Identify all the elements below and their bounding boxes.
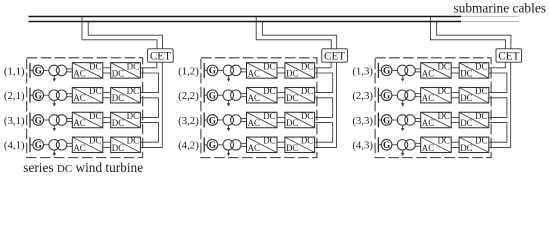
wire blade-to-generator (204, 69, 207, 71)
svg-text:AC: AC (248, 143, 260, 153)
transformer T unit (4,1) (49, 140, 67, 151)
svg-text:DC: DC (460, 68, 472, 78)
transformer T unit (1,1) (49, 65, 67, 76)
svg-text:DC: DC (89, 61, 101, 71)
wire upper submarine cable to CET 3 (430, 17, 505, 49)
DC/DC converter unit (3,1) (111, 111, 141, 128)
svg-text:DC: DC (127, 136, 139, 146)
transformer T unit (4,3) (397, 140, 415, 151)
wire pair transformer-to-rectifier (241, 119, 247, 122)
CET converter (cluster 3) (496, 49, 522, 63)
wire pair transformer-to-rectifier (241, 69, 247, 72)
svg-text:CET: CET (150, 51, 171, 63)
svg-text:DC: DC (112, 143, 124, 153)
series link wire unit 2-to-3 (string 1) (140, 98, 158, 118)
svg-text:AC: AC (73, 143, 85, 153)
upper submarine cable bus (29, 16, 519, 18)
svg-text:DC: DC (301, 61, 313, 71)
generator G unit (1,3) (381, 65, 392, 77)
wire pair transformer-to-rectifier (241, 94, 247, 97)
wire blade-to-generator (30, 144, 33, 146)
svg-text:G: G (209, 141, 216, 151)
svg-text:DC: DC (301, 111, 313, 121)
svg-text:(3,3): (3,3) (352, 115, 373, 127)
svg-text:DC: DC (286, 143, 298, 153)
wire blade-to-generator (204, 94, 207, 96)
svg-text:DC: DC (89, 136, 101, 146)
svg-text:(3,1): (3,1) (4, 115, 25, 127)
wire CET 3 to string positive terminal (489, 62, 506, 68)
svg-text:AC: AC (422, 118, 434, 128)
svg-text:AC: AC (248, 118, 260, 128)
wire pair rectifier-to-DC/DC (103, 117, 111, 122)
svg-text:G: G (35, 92, 42, 102)
wire lower submarine cable to CET 1 (88, 22, 162, 49)
wire pair rectifier-to-DC/DC (451, 142, 459, 147)
series link wire unit 1-to-2 (string 3) (489, 73, 507, 93)
generator G unit (3,3) (381, 115, 392, 127)
AC/DC converter unit (2,2) (247, 86, 278, 103)
wire upper submarine cable to CET 1 (82, 17, 157, 49)
DC/DC converter unit (2,2) (285, 86, 315, 103)
svg-text:DC: DC (286, 93, 298, 103)
ground at transformer (2,1) (53, 100, 56, 106)
DC/DC converter unit (4,3) (459, 136, 489, 153)
wire pair rectifier-to-DC/DC (103, 142, 111, 147)
transformer T unit (3,2) (223, 115, 241, 126)
svg-text:(4,2): (4,2) (178, 140, 199, 152)
generator G unit (2,2) (207, 90, 218, 102)
wind turbine blade bar unit (2,1) (29, 88, 31, 103)
wire pair rectifier-to-DC/DC (103, 68, 111, 73)
generator G unit (1,1) (33, 65, 44, 77)
wire pair transformer-to-rectifier (67, 143, 73, 146)
generator G unit (2,1) (33, 90, 44, 102)
svg-text:(3,2): (3,2) (178, 115, 199, 127)
svg-text:DC: DC (301, 136, 313, 146)
svg-text:DC: DC (460, 93, 472, 103)
wire pair transformer-to-rectifier (415, 119, 421, 122)
wind turbine blade bar unit (2,3) (377, 88, 379, 103)
wire pair transformer-to-rectifier (415, 69, 421, 72)
svg-text:AC: AC (422, 93, 434, 103)
svg-text:G: G (383, 116, 390, 126)
svg-text:series DC wind turbine: series DC wind turbine (23, 160, 143, 175)
svg-text:G: G (383, 141, 390, 151)
wire blade-to-generator (30, 69, 33, 71)
generator G unit (4,2) (207, 140, 218, 152)
svg-text:AC: AC (73, 93, 85, 103)
wire CET 2 to string negative terminal (315, 62, 337, 147)
svg-text:DC: DC (263, 111, 275, 121)
DC/DC converter unit (1,3) (459, 61, 489, 78)
AC/DC converter unit (4,3) (421, 136, 452, 153)
transformer T unit (2,2) (223, 90, 241, 101)
ground at transformer (4,3) (401, 150, 404, 156)
svg-text:(2,3): (2,3) (352, 90, 373, 102)
wind turbine blade bar unit (3,2) (203, 113, 205, 128)
svg-text:G: G (383, 92, 390, 102)
svg-text:DC: DC (127, 61, 139, 71)
svg-text:AC: AC (248, 68, 260, 78)
generator G unit (3,2) (207, 115, 218, 127)
DC/DC converter unit (3,2) (285, 111, 315, 128)
transformer T unit (3,3) (397, 115, 415, 126)
CET converter (cluster 2) (322, 49, 348, 63)
wire generator-to-transformer (392, 69, 397, 71)
svg-text:DC: DC (460, 118, 472, 128)
wire lower submarine cable to CET 3 (437, 22, 511, 49)
DC/DC converter unit (3,3) (459, 111, 489, 128)
AC/DC converter unit (2,1) (72, 86, 103, 103)
wire blade-to-generator (204, 119, 207, 121)
ground at transformer (2,3) (401, 100, 404, 106)
wind turbine blade bar unit (4,2) (203, 137, 205, 152)
svg-text:DC: DC (437, 86, 449, 96)
DC/DC converter unit (4,1) (111, 136, 141, 153)
wire pair transformer-to-rectifier (241, 143, 247, 146)
ground at transformer (4,2) (227, 150, 230, 156)
wire blade-to-generator (378, 144, 381, 146)
svg-text:DC: DC (437, 111, 449, 121)
ground at transformer (1,3) (401, 75, 404, 81)
svg-text:DC: DC (89, 111, 101, 121)
svg-text:G: G (35, 67, 42, 77)
transformer T unit (1,3) (397, 65, 415, 76)
svg-text:DC: DC (286, 118, 298, 128)
wire pair rectifier-to-DC/DC (277, 142, 285, 147)
ground at transformer (1,2) (227, 75, 230, 81)
DC/DC converter unit (2,1) (111, 86, 141, 103)
wire blade-to-generator (204, 144, 207, 146)
wire pair rectifier-to-DC/DC (277, 117, 285, 122)
wire pair rectifier-to-DC/DC (451, 68, 459, 73)
svg-text:AC: AC (422, 68, 434, 78)
svg-text:DC: DC (89, 86, 101, 96)
svg-text:DC: DC (263, 61, 275, 71)
transformer T unit (2,1) (49, 90, 67, 101)
ground at transformer (3,2) (227, 125, 230, 131)
ground at transformer (1,1) (53, 75, 56, 81)
series link wire unit 1-to-2 (string 2) (315, 73, 333, 93)
wind turbine blade bar unit (3,3) (377, 113, 379, 128)
svg-text:DC: DC (263, 86, 275, 96)
transformer T unit (3,1) (49, 115, 67, 126)
AC/DC converter unit (1,3) (421, 61, 452, 78)
wire generator-to-transformer (44, 144, 49, 146)
svg-text:DC: DC (437, 136, 449, 146)
DC/DC converter unit (2,3) (459, 86, 489, 103)
wire pair rectifier-to-DC/DC (451, 117, 459, 122)
svg-text:AC: AC (73, 118, 85, 128)
dashed enclosure: series DC wind turbine string 2 (201, 58, 317, 158)
AC/DC converter unit (4,1) (72, 136, 103, 153)
wire blade-to-generator (30, 119, 33, 121)
svg-text:DC: DC (112, 118, 124, 128)
svg-text:CET: CET (324, 51, 345, 63)
svg-text:(2,2): (2,2) (178, 90, 199, 102)
AC/DC converter unit (4,2) (247, 136, 278, 153)
wire lower submarine cable to CET 2 (262, 22, 336, 49)
svg-text:(4,3): (4,3) (352, 140, 373, 152)
wire blade-to-generator (378, 69, 381, 71)
wire generator-to-transformer (392, 119, 397, 121)
svg-text:G: G (383, 67, 390, 77)
wire generator-to-transformer (44, 119, 49, 121)
svg-text:DC: DC (286, 68, 298, 78)
svg-text:AC: AC (248, 93, 260, 103)
wire blade-to-generator (378, 94, 381, 96)
AC/DC converter unit (2,3) (421, 86, 452, 103)
transformer T unit (1,2) (223, 65, 241, 76)
wire blade-to-generator (30, 94, 33, 96)
svg-text:CET: CET (498, 51, 519, 63)
wire pair transformer-to-rectifier (67, 119, 73, 122)
generator G unit (4,1) (33, 140, 44, 152)
svg-text:(4,1): (4,1) (4, 140, 25, 152)
svg-text:(1,3): (1,3) (352, 65, 373, 77)
series link wire unit 3-to-4 (string 2) (315, 123, 333, 143)
svg-text:DC: DC (475, 111, 487, 121)
AC/DC converter unit (3,3) (421, 111, 452, 128)
svg-text:DC: DC (301, 86, 313, 96)
wire pair rectifier-to-DC/DC (103, 93, 111, 98)
wire CET 1 to string positive terminal (140, 62, 157, 68)
svg-text:DC: DC (263, 136, 275, 146)
AC/DC converter unit (1,1) (72, 61, 103, 78)
svg-text:DC: DC (127, 111, 139, 121)
wire generator-to-transformer (44, 69, 49, 71)
dashed enclosure: series DC wind turbine string 1 (27, 58, 143, 158)
wire generator-to-transformer (218, 69, 223, 71)
wire CET 3 to string negative terminal (489, 62, 511, 147)
wire pair transformer-to-rectifier (67, 69, 73, 72)
AC/DC converter unit (1,2) (247, 61, 278, 78)
DC/DC converter unit (1,2) (285, 61, 315, 78)
wire pair rectifier-to-DC/DC (451, 93, 459, 98)
wind turbine blade bar unit (3,1) (29, 113, 31, 128)
generator G unit (1,2) (207, 65, 218, 77)
wire pair rectifier-to-DC/DC (277, 93, 285, 98)
generator G unit (2,3) (381, 90, 392, 102)
svg-text:DC: DC (475, 86, 487, 96)
wire pair transformer-to-rectifier (67, 94, 73, 97)
wire generator-to-transformer (218, 94, 223, 96)
svg-text:DC: DC (437, 61, 449, 71)
wire generator-to-transformer (44, 94, 49, 96)
series link wire unit 2-to-3 (string 3) (489, 98, 507, 118)
svg-text:DC: DC (112, 93, 124, 103)
svg-text:G: G (35, 141, 42, 151)
svg-text:submarine cables: submarine cables (453, 0, 546, 15)
svg-text:(2,1): (2,1) (4, 90, 25, 102)
wind turbine blade bar unit (1,3) (377, 63, 379, 78)
wire generator-to-transformer (218, 144, 223, 146)
wire blade-to-generator (378, 119, 381, 121)
wire generator-to-transformer (392, 144, 397, 146)
wire generator-to-transformer (392, 94, 397, 96)
lower submarine cable bus (29, 21, 519, 23)
wire CET 1 to string negative terminal (140, 62, 162, 147)
svg-text:AC: AC (73, 68, 85, 78)
ground at transformer (2,2) (227, 100, 230, 106)
svg-text:G: G (209, 92, 216, 102)
svg-text:(1,1): (1,1) (4, 65, 25, 77)
generator G unit (3,1) (33, 115, 44, 127)
DC/DC converter unit (1,1) (111, 61, 141, 78)
transformer T unit (4,2) (223, 140, 241, 151)
wire generator-to-transformer (218, 119, 223, 121)
ground at transformer (3,1) (53, 125, 56, 131)
CET converter (cluster 1) (148, 49, 174, 63)
svg-text:DC: DC (475, 136, 487, 146)
svg-text:DC: DC (475, 61, 487, 71)
generator G unit (4,3) (381, 140, 392, 152)
svg-text:G: G (35, 116, 42, 126)
wind turbine blade bar unit (4,3) (377, 137, 379, 152)
wire pair transformer-to-rectifier (415, 143, 421, 146)
ground at transformer (4,1) (53, 150, 56, 156)
series link wire unit 2-to-3 (string 2) (315, 98, 333, 118)
wire upper submarine cable to CET 2 (256, 17, 331, 49)
wire pair transformer-to-rectifier (415, 94, 421, 97)
wire CET 2 to string positive terminal (315, 62, 332, 68)
AC/DC converter unit (3,2) (247, 111, 278, 128)
svg-text:DC: DC (127, 86, 139, 96)
wind turbine blade bar unit (4,1) (29, 137, 31, 152)
series link wire unit 1-to-2 (string 1) (140, 73, 158, 93)
series link wire unit 3-to-4 (string 3) (489, 123, 507, 143)
wire pair rectifier-to-DC/DC (277, 68, 285, 73)
svg-text:G: G (209, 116, 216, 126)
svg-text:DC: DC (112, 68, 124, 78)
wind turbine blade bar unit (1,2) (203, 63, 205, 78)
DC/DC converter unit (4,2) (285, 136, 315, 153)
svg-text:(1,2): (1,2) (178, 65, 199, 77)
svg-text:DC: DC (460, 143, 472, 153)
AC/DC converter unit (3,1) (72, 111, 103, 128)
wind turbine blade bar unit (1,1) (29, 63, 31, 78)
series link wire unit 3-to-4 (string 1) (140, 123, 158, 143)
transformer T unit (2,3) (397, 90, 415, 101)
ground at transformer (3,3) (401, 125, 404, 131)
wind turbine blade bar unit (2,2) (203, 88, 205, 103)
svg-text:AC: AC (422, 143, 434, 153)
dashed enclosure: series DC wind turbine string 3 (375, 58, 491, 158)
svg-text:G: G (209, 67, 216, 77)
